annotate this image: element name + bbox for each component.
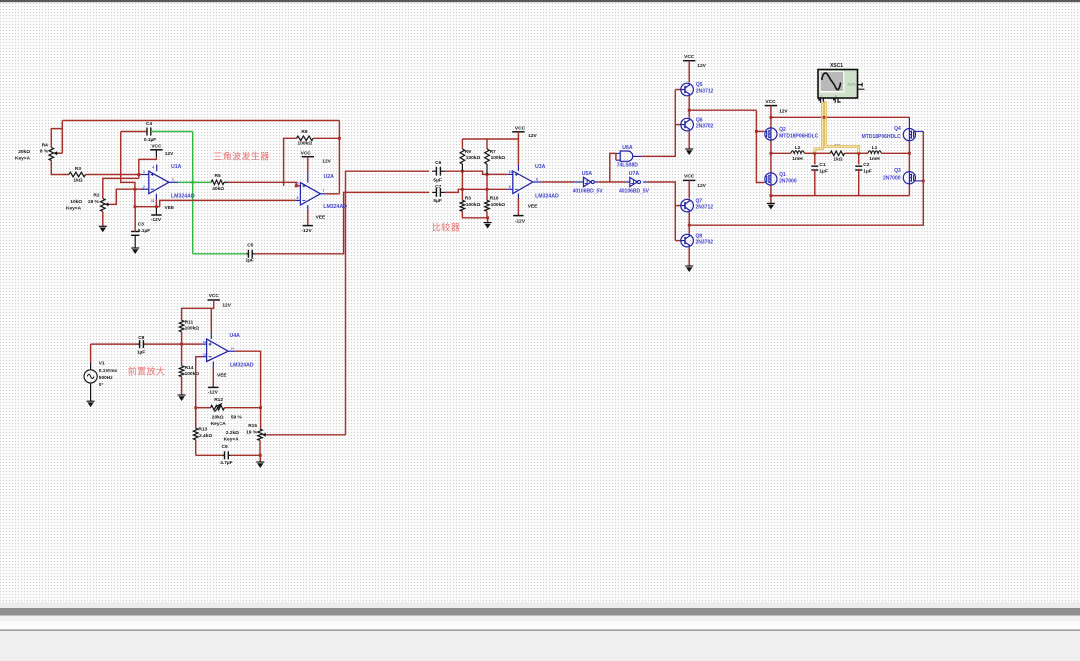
svg-text:R2: R2: [93, 193, 99, 199]
svg-text:2.2kΩ: 2.2kΩ: [226, 430, 239, 436]
svg-text:10kΩ: 10kΩ: [70, 199, 82, 205]
wire R15 wiper out: [267, 434, 346, 436]
svg-text:C4: C4: [146, 121, 152, 127]
wire U5A out to U7A: [598, 181, 625, 183]
svg-text:C9: C9: [222, 444, 228, 450]
wire R2 bottom to ground: [102, 212, 104, 227]
pin U1A output stub: [169, 181, 178, 183]
transistor Q8: [681, 234, 694, 247]
wire R14 top: [181, 344, 183, 366]
pin U1A vplus: [155, 150, 157, 157]
wire VEE node to U2A minus: [160, 200, 296, 206]
svg-text:1: 1: [172, 178, 174, 182]
source V1 stem: [90, 344, 92, 362]
wire U4A vplus drop: [210, 308, 212, 333]
junction Q3 gate: [922, 180, 925, 183]
svg-text:Q7: Q7: [696, 198, 703, 204]
svg-text:10: 10: [509, 170, 513, 174]
svg-text:19 %: 19 %: [246, 430, 258, 436]
svg-text:R9: R9: [465, 149, 471, 155]
resistor R10: [485, 200, 490, 211]
pin U7A output stub: [643, 181, 648, 183]
capacitor C4: [146, 128, 148, 136]
probe wire B: [825, 102, 858, 153]
wire VCC to Q2: [770, 106, 772, 128]
svg-text:XSC1: XSC1: [830, 63, 843, 69]
wire V1 bottom: [90, 384, 92, 401]
svg-text:R5: R5: [215, 173, 221, 179]
wire VCC to R11 rail: [182, 300, 214, 320]
wire C7 to minus net: [445, 189, 508, 192]
wire Q4 gate stub: [915, 130, 923, 132]
svg-text:4.7µF: 4.7µF: [220, 460, 232, 466]
wire Q6 collector down: [688, 132, 690, 149]
wire node to L2: [771, 152, 791, 154]
wire L2 to C1 node: [804, 152, 815, 154]
vcc symbol Q7: [683, 179, 695, 181]
ground under Q8: [685, 265, 693, 267]
pin U2A vminus: [307, 205, 309, 210]
svg-text:100kΩ: 100kΩ: [491, 155, 506, 161]
wire R4 top connection: [61, 121, 63, 154]
svg-text:三角波发生器: 三角波发生器: [213, 151, 269, 162]
resistor R7: [485, 149, 490, 164]
svg-text:R10: R10: [490, 195, 499, 201]
svg-text:C3: C3: [138, 222, 144, 228]
wire C6 to plus net: [445, 171, 508, 174]
junction probe rail crossing: [823, 116, 826, 119]
svg-text:1kΩ: 1kΩ: [73, 178, 82, 184]
svg-text:100kΩ: 100kΩ: [185, 371, 200, 377]
wire R13 top lead: [195, 408, 197, 429]
wire bridge bottom rail: [771, 195, 910, 197]
svg-text:C7: C7: [435, 184, 441, 190]
svg-text:MTD18P06HDLC: MTD18P06HDLC: [779, 133, 819, 139]
svg-text:Key=A: Key=A: [224, 436, 240, 442]
junction U2A plus node: [295, 185, 298, 188]
wire R7 top lead: [486, 139, 488, 149]
svg-text:C6: C6: [435, 160, 441, 166]
wire C4 left branch: [121, 132, 135, 207]
svg-text:R8: R8: [301, 129, 307, 135]
svg-text:AuTo: AuTo: [847, 83, 855, 87]
oscilloscope XSC1 box: [818, 70, 858, 99]
mosfet Q4: [903, 129, 915, 141]
svg-text:L1: L1: [872, 145, 878, 151]
wire U3A out to U5A: [542, 181, 574, 183]
svg-text:3: 3: [143, 170, 145, 174]
inductor L1: [868, 151, 882, 154]
svg-text:VEE: VEE: [217, 372, 227, 378]
wire Q5 emitter to Q6: [688, 97, 690, 118]
svg-text:4: 4: [152, 166, 154, 170]
svg-text:2N7000: 2N7000: [779, 179, 797, 185]
junction feedback: [338, 137, 341, 140]
svg-text:Q6: Q6: [696, 117, 703, 123]
svg-text:R13: R13: [198, 426, 207, 432]
wire U2A output: [325, 193, 339, 195]
wire C1node to R6: [815, 152, 830, 154]
svg-text:1mH: 1mH: [869, 156, 880, 162]
wire C8 to U4A plus: [146, 343, 202, 345]
wire R8 right to feedback: [313, 137, 339, 139]
ground under Q6: [685, 148, 693, 150]
svg-text:VCC: VCC: [684, 54, 695, 60]
svg-text:MTD18P06HDLC: MTD18P06HDLC: [862, 134, 902, 140]
wire R14 bottom: [181, 377, 183, 395]
status area upper: [0, 616, 1080, 621]
and-gate U6A: [620, 151, 633, 161]
inverter U7A: [630, 177, 638, 186]
svg-text:59 %: 59 %: [231, 414, 243, 420]
oscilloscope trace: [822, 73, 841, 90]
mosfet Q2: [765, 128, 777, 140]
mosfet Q3: [903, 172, 915, 184]
status area divider line: [0, 630, 1080, 631]
wire R15 bottom: [259, 440, 261, 455]
wire U7A out to lower bases: [648, 182, 675, 241]
wire R3 to U1A plus input: [86, 174, 142, 176]
wire branch up to U6A: [610, 153, 616, 182]
svg-text:2N3702: 2N3702: [696, 124, 714, 130]
oscilloscope terminal right: [858, 83, 865, 90]
svg-text:2N3712: 2N3712: [696, 205, 714, 211]
resistor R11: [179, 320, 184, 332]
horizontal scrollbar: [0, 608, 1080, 616]
potentiometer R15: [258, 429, 263, 440]
svg-text:13: 13: [203, 352, 207, 356]
junction VEE node: [134, 205, 137, 208]
junction plus input node: [180, 343, 183, 346]
svg-text:20kΩ: 20kΩ: [212, 414, 224, 420]
pin U4A plus stub: [202, 343, 207, 345]
svg-text:U7A: U7A: [629, 171, 640, 177]
svg-text:100kΩ: 100kΩ: [466, 155, 481, 161]
svg-text:500Hz: 500Hz: [99, 375, 113, 381]
svg-text:18 %: 18 %: [88, 199, 100, 205]
svg-text:C5: C5: [247, 242, 253, 248]
wire R4 bottom to R3: [51, 161, 69, 175]
svg-text:1µF: 1µF: [819, 169, 827, 175]
svg-text:VEE: VEE: [165, 205, 175, 211]
inverter U5A: [584, 177, 592, 186]
svg-text:VCC: VCC: [515, 125, 526, 131]
svg-text:40kΩ: 40kΩ: [212, 186, 224, 192]
svg-text:2N7000: 2N7000: [883, 175, 901, 181]
resistor R3: [69, 172, 86, 177]
svg-text:-12V: -12V: [208, 389, 219, 395]
bottom canvas edge strip: [0, 602, 1080, 608]
svg-text:0.1µF: 0.1µF: [138, 228, 150, 234]
svg-text:R3: R3: [75, 166, 81, 172]
potentiometer R12: [211, 405, 225, 410]
svg-text:U6A: U6A: [622, 145, 633, 151]
junction vcc rail: [770, 116, 773, 119]
svg-text:100kΩ: 100kΩ: [298, 141, 313, 147]
svg-text:Key=A: Key=A: [211, 421, 227, 427]
resistor R8: [297, 136, 314, 141]
junction R12 right: [259, 406, 262, 409]
svg-text:Q2: Q2: [779, 127, 786, 133]
svg-text:Q8: Q8: [696, 233, 703, 239]
junction upper driver out: [688, 109, 691, 112]
resistor R9: [460, 149, 465, 164]
wire Q5 base: [675, 89, 681, 91]
svg-text:12V: 12V: [322, 158, 331, 164]
junction R15 bottom: [259, 454, 262, 457]
vcc symbol Q5: [683, 60, 695, 62]
wire Q8 base: [675, 240, 681, 242]
svg-text:1kΩ: 1kΩ: [833, 156, 842, 162]
svg-text:VCC: VCC: [209, 293, 220, 299]
potentiometer R2: [101, 199, 106, 212]
svg-text:100kΩ: 100kΩ: [466, 202, 481, 208]
svg-text:14: 14: [231, 347, 235, 351]
capacitor C1: [814, 153, 816, 164]
svg-text:L2: L2: [795, 145, 801, 151]
wire preamp out to C6: [346, 171, 430, 435]
pin U2A vplus: [307, 157, 309, 172]
status bar panel: [0, 631, 1080, 661]
svg-text:12: 12: [203, 340, 207, 344]
capacitor C9: [222, 454, 224, 456]
svg-text:0.1µF: 0.1µF: [144, 137, 156, 143]
resistor R13: [193, 428, 198, 440]
svg-text:-12V: -12V: [302, 228, 313, 234]
svg-text:VEE: VEE: [528, 203, 538, 209]
junction R9 plusnet: [461, 170, 464, 173]
svg-text:1µF: 1µF: [137, 350, 145, 356]
capacitor C6: [432, 170, 436, 172]
svg-text:R7: R7: [490, 149, 496, 155]
svg-text:前置放大: 前置放大: [128, 366, 166, 377]
wire C5 to C7 net: [255, 192, 429, 253]
pin U7A input stub: [625, 181, 629, 183]
wire Q1 source down: [770, 186, 772, 204]
probe wire A: [815, 102, 823, 153]
pin U5A input stub: [574, 181, 583, 183]
ground comparator: [484, 222, 492, 224]
svg-text:12V: 12V: [697, 183, 706, 189]
wire upper drive to gates: [689, 109, 756, 111]
capacitor C2b: [858, 153, 860, 164]
vcc symbol U3A: [512, 131, 524, 133]
svg-text:0.1Vrms: 0.1Vrms: [99, 368, 118, 374]
op-amp U2A: [300, 183, 320, 206]
oscilloscope terminal A: [818, 98, 826, 103]
oscilloscope screen: [820, 71, 845, 92]
svg-text:100kΩ: 100kΩ: [491, 202, 506, 208]
wire R11 bottom: [181, 332, 183, 344]
svg-text:5µF: 5µF: [433, 198, 441, 204]
mosfet Q1: [765, 173, 777, 185]
wire R12 right lead: [224, 407, 260, 409]
svg-text:R14: R14: [185, 365, 194, 371]
wire Q8 collector down: [688, 248, 690, 266]
wire VCC to Q5: [688, 61, 690, 83]
svg-text:12V: 12V: [222, 303, 231, 309]
ground under C3: [131, 247, 139, 249]
ground bridge: [767, 202, 775, 204]
wire green U1A output vertical: [192, 132, 194, 254]
svg-text:5µF: 5µF: [433, 177, 441, 183]
junction R7 plusnet: [486, 173, 489, 176]
wire U4A minus down: [196, 357, 202, 429]
svg-text:Q1: Q1: [779, 172, 786, 178]
vee symbol U1A: [155, 207, 157, 215]
inductor L2: [791, 151, 805, 154]
pin U2A output stub: [320, 193, 325, 195]
svg-text:Key=A: Key=A: [15, 155, 31, 161]
vcc symbol bridge: [765, 105, 777, 107]
wire Q4 source up: [908, 117, 910, 128]
wire R4 upper jog: [51, 129, 62, 148]
wire R9 junction down: [461, 171, 463, 200]
junction plus node U1A: [137, 173, 140, 176]
junction minus node: [134, 188, 137, 191]
svg-text:6: 6: [297, 196, 299, 200]
wire Q3 source down: [908, 184, 910, 195]
svg-text:Q3: Q3: [894, 168, 901, 174]
svg-text:VCC: VCC: [684, 174, 695, 180]
op-amp U3A: [513, 171, 533, 194]
op-amp U1A: [149, 171, 169, 194]
svg-text:2.4kΩ: 2.4kΩ: [199, 433, 212, 439]
vcc symbol U4A: [208, 299, 220, 301]
wire C9 to R15 bottom: [230, 454, 260, 456]
pin U1A vminus: [155, 194, 157, 199]
wire Q3 gate stub: [915, 180, 923, 182]
source V1: [84, 370, 97, 383]
svg-text:100kΩ: 100kΩ: [185, 326, 200, 332]
pin U3A minus stub: [508, 188, 513, 190]
vee symbol U3A: [513, 215, 523, 217]
svg-text:-12V: -12V: [151, 217, 162, 223]
svg-text:40106BD_5V: 40106BD_5V: [573, 189, 604, 195]
svg-text:U5A: U5A: [582, 171, 593, 177]
pin U4A output stub: [228, 350, 236, 352]
junction right output node: [908, 152, 911, 155]
ground under R14: [178, 394, 186, 396]
svg-text:8: 8: [536, 177, 538, 181]
svg-text:11: 11: [151, 199, 155, 203]
resistor R14: [179, 366, 184, 377]
wire V1 to C8: [91, 343, 138, 345]
junction bottom rail left: [770, 194, 773, 197]
wire C4 right green: [151, 131, 193, 133]
svg-text:VCC: VCC: [765, 99, 776, 105]
svg-text:2: 2: [143, 185, 145, 189]
capacitor C8: [137, 343, 140, 345]
wire Q7 base: [675, 205, 681, 207]
status area white strip: [0, 621, 1080, 630]
junction R12 left: [194, 406, 197, 409]
svg-text:LM324AD: LM324AD: [323, 204, 347, 210]
ground under R15: [256, 461, 264, 463]
wire Q6 base: [675, 124, 681, 126]
svg-text:12V: 12V: [165, 151, 174, 157]
wire bridge top rail: [771, 116, 910, 118]
svg-text:Q4: Q4: [894, 126, 901, 132]
svg-text:R4: R4: [42, 143, 48, 149]
svg-text:20kΩ: 20kΩ: [18, 149, 30, 155]
svg-text:1µF: 1µF: [246, 258, 254, 264]
pin U2A minus stub: [295, 199, 300, 201]
svg-text:8 %: 8 %: [40, 149, 49, 155]
svg-text:U3A: U3A: [535, 164, 546, 170]
wire U2A feedback vertical: [338, 121, 340, 194]
wire R7 junction down: [486, 174, 488, 200]
wire Q2 drain to L2 node: [770, 141, 772, 173]
capacitor C3: [134, 231, 136, 233]
svg-text:1µF: 1µF: [863, 169, 871, 175]
wire comparator vcc rail: [462, 138, 518, 140]
svg-text:2N3712: 2N3712: [696, 89, 714, 95]
svg-text:VCC: VCC: [151, 143, 162, 149]
ground under R2: [99, 225, 107, 227]
wire VCC to Q7: [688, 180, 690, 198]
vee symbol U2A: [303, 225, 313, 227]
svg-text:U4A: U4A: [230, 333, 241, 339]
svg-text:V1: V1: [99, 361, 105, 367]
svg-text:2N3702: 2N3702: [696, 240, 714, 246]
capacitor C5: [247, 250, 249, 258]
pin U3A plus stub: [508, 173, 513, 175]
junction lower driver out: [688, 224, 691, 227]
svg-text:比较器: 比较器: [432, 222, 460, 233]
svg-text:0°: 0°: [99, 382, 104, 388]
svg-text:Key=A: Key=A: [66, 206, 82, 212]
pin U3A output stub: [533, 181, 542, 183]
wire R2 wiper net: [110, 189, 144, 204]
pin U4A vminus: [212, 362, 214, 368]
wire green to C5: [193, 253, 247, 255]
svg-text:R3: R3: [465, 195, 471, 201]
resistor R6: [830, 151, 844, 156]
junction Q2 gate: [755, 130, 758, 133]
junction left output node: [770, 152, 773, 155]
pin U3A vplus: [517, 132, 519, 165]
ground under V1: [87, 400, 95, 402]
pin U5A output stub: [595, 181, 599, 183]
wire U6A input stubs: [615, 153, 617, 160]
wire top feedback rail: [62, 120, 339, 122]
wire R9 bottom: [461, 164, 463, 171]
vcc symbol U1A: [150, 149, 162, 151]
pin U1A minus stub: [141, 188, 149, 190]
wire U1A output to R5 green: [178, 181, 211, 183]
wire preamp bottom rail: [196, 454, 223, 456]
junction R9 minusnet: [461, 188, 464, 191]
wire R5 to U2A plus: [228, 182, 300, 186]
svg-text:40106BD_5V: 40106BD_5V: [619, 189, 650, 195]
wire R12 left lead: [196, 407, 211, 409]
wire VEE node horizontal: [135, 206, 160, 208]
wire Q2 gate stub: [756, 130, 764, 132]
svg-text:U1A: U1A: [171, 164, 182, 170]
wire C3 bottom: [134, 235, 136, 248]
junction ground node: [486, 216, 489, 219]
junction R7 minusnet: [486, 188, 489, 191]
svg-text:VCC: VCC: [301, 151, 312, 157]
svg-text:Q5: Q5: [696, 82, 703, 88]
op-amp U4A: [207, 339, 229, 362]
wire L1 to right node: [881, 152, 909, 154]
wire R4 wiper link: [57, 152, 63, 154]
junction C1 node: [813, 152, 816, 155]
junction C2 node: [857, 152, 860, 155]
svg-text:-12V: -12V: [515, 219, 526, 225]
